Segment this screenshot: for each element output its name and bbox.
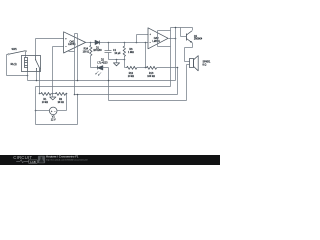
wire bottom loop	[36, 124, 78, 126]
svg-text:12 V: 12 V	[51, 119, 56, 122]
svg-text:1 MΩ: 1 MΩ	[128, 51, 134, 54]
diode D1	[95, 40, 99, 44]
wire relay contact a down	[36, 72, 38, 81]
junction R6 top	[124, 42, 126, 44]
wire speaker return rail	[109, 100, 187, 102]
wire to feedback node	[137, 42, 146, 44]
op-amp OA1	[64, 32, 86, 53]
svg-text:http://circuitlab.com/c/56544/: http://circuitlab.com/c/56544/crossmetro…	[46, 159, 88, 162]
transistor Q1	[192, 28, 194, 31]
wire feedback down	[145, 43, 147, 68]
svg-text:2N3904: 2N3904	[194, 38, 203, 41]
wire OA1 Vminus stub	[69, 51, 75, 53]
wire right drop to rail4	[177, 68, 179, 95]
LED D2	[97, 66, 99, 70]
wire SW1 left stub	[7, 54, 8, 56]
CircuitLab logo zigzag	[16, 160, 28, 163]
junction R13 right	[177, 67, 179, 69]
junction C1 top	[108, 42, 110, 44]
svg-text:LM741: LM741	[68, 43, 76, 46]
wire to R6 top	[109, 42, 125, 44]
wire R6 to R12	[125, 67, 127, 69]
wire vertical v2	[77, 34, 79, 81]
junction contact-rail1	[36, 80, 38, 82]
svg-text:SW1: SW1	[12, 48, 18, 51]
relay RL1 box	[22, 56, 41, 72]
wire gnd to R2	[53, 93, 56, 95]
ground G2	[116, 60, 118, 63]
speaker SPKR1	[190, 59, 194, 68]
relay switch contact	[35, 56, 37, 60]
wire rail3 horizontal	[36, 86, 171, 88]
wire V1 minus	[36, 110, 50, 112]
junction feedback node	[145, 67, 147, 69]
relay coil	[25, 58, 28, 68]
wire loop riser to rail4	[77, 95, 79, 125]
junction feedback top	[145, 42, 147, 44]
wire OA2 output	[169, 38, 176, 40]
wire left riser	[35, 87, 37, 125]
svg-text:LTL-4223: LTL-4223	[97, 61, 108, 64]
junction ground G2	[116, 59, 118, 61]
svg-text:Houtem / Crossmetro F1: Houtem / Crossmetro F1	[46, 155, 79, 159]
svg-text:8 Ω: 8 Ω	[203, 63, 207, 66]
wire coil bottom to junction	[27, 72, 29, 76]
junction cap-drop	[175, 27, 177, 29]
ground G1	[52, 94, 54, 97]
junction v2-rail1	[77, 80, 79, 82]
wire D2 anode	[103, 67, 109, 69]
wire OA1 output	[86, 42, 91, 44]
CircuitLab flask icon	[38, 156, 45, 163]
junction D2-rail1	[108, 80, 110, 82]
svg-text:10 kΩ: 10 kΩ	[128, 75, 135, 78]
wire node to R13	[146, 67, 147, 69]
resistor R6	[124, 43, 126, 47]
wire R14 to D2	[90, 56, 92, 68]
wire to speaker bottom	[187, 64, 190, 66]
wire coil bottom pin	[27, 68, 29, 72]
switch SW1	[8, 54, 9, 55]
resistor R13	[146, 66, 156, 69]
footer bar	[0, 155, 220, 165]
wire speaker top riser	[184, 48, 186, 62]
wire Vplus vertical	[170, 28, 172, 87]
wire SW1 left down	[6, 55, 8, 76]
wire Q1 emitter down	[192, 43, 194, 48]
wire rail1 horizontal	[28, 80, 176, 82]
wire emitter jog	[185, 47, 193, 49]
svg-text:10 µF: 10 µF	[114, 52, 121, 55]
wire to speaker top	[185, 61, 190, 63]
wire R12 to node	[137, 67, 146, 69]
junction R2 right	[66, 93, 68, 95]
LED D2 arrows	[96, 71, 99, 74]
junction v1-rail4	[74, 94, 76, 96]
wire branch up	[136, 35, 138, 43]
wire to OA2 minus input	[146, 42, 149, 44]
capacitor C1	[108, 43, 110, 51]
op-amp OA2	[148, 28, 168, 49]
resistor R14	[90, 43, 92, 46]
wire to OA2 plus input	[137, 34, 149, 36]
junction R6-G2 wire	[124, 59, 126, 61]
wire rail4 horizontal	[75, 94, 178, 96]
wire speaker bottom drop	[186, 65, 188, 101]
svg-text:100 kΩ: 100 kΩ	[147, 75, 155, 78]
svg-text:RL(1): RL(1)	[11, 63, 17, 66]
resistor R1	[40, 93, 41, 95]
wire to D2 cathode	[91, 67, 98, 69]
wire D1 to C1 node	[100, 42, 109, 44]
svg-text:1N4148: 1N4148	[93, 49, 102, 52]
junction output-R14	[90, 42, 92, 44]
wire SW1 to coil pin	[7, 75, 28, 77]
wire relay contact b down to R1	[39, 72, 41, 94]
voltage source V1	[49, 107, 57, 115]
svg-text:LM741: LM741	[153, 40, 161, 43]
resistor R12	[127, 66, 137, 69]
wire top-left vertical	[35, 39, 37, 56]
svg-text:10 kΩ: 10 kΩ	[42, 101, 49, 104]
junction OA2 plus branch	[136, 42, 138, 44]
wire to OA1 plus input	[36, 38, 64, 40]
wire OA1 power pair	[75, 33, 78, 35]
junction R1 left	[39, 93, 41, 95]
wire C1 to R6 column	[109, 59, 125, 61]
wire V1 plus	[57, 110, 67, 112]
junction OA2 output	[175, 38, 177, 40]
wire output drop to rail1	[175, 28, 177, 81]
resistor R2	[55, 92, 65, 95]
wire OA1 minus down to divider	[52, 47, 54, 94]
wire D2 down	[108, 68, 110, 101]
wire R2 right down to V1	[66, 94, 68, 111]
junction V1-left riser	[35, 110, 37, 112]
svg-text:10 kΩ: 10 kΩ	[57, 101, 64, 104]
wire OA1 minus input	[53, 46, 64, 48]
wire box over OA2	[158, 30, 171, 32]
wire SW1 to relay coil top	[25, 52, 27, 58]
svg-text:100 Ω: 100 Ω	[83, 50, 90, 53]
junction coil pin	[27, 75, 29, 77]
wire to Q1 base	[181, 36, 187, 38]
wire base drop	[180, 28, 182, 37]
junction divider mid	[52, 93, 54, 95]
wire vertical v1	[74, 34, 76, 95]
wire top cap	[171, 27, 193, 29]
wire to OA2 branch	[125, 42, 137, 44]
wire jog down	[27, 76, 29, 81]
junction loop-rail4	[77, 94, 79, 96]
wire R13 to right drop	[157, 67, 178, 69]
wire to D1	[91, 42, 96, 44]
svg-text:LAB: LAB	[30, 160, 36, 164]
